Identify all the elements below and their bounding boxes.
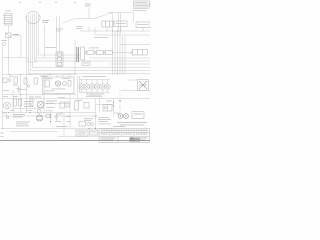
rectifier V10 bbox=[103, 105, 112, 112]
text x115 y113 bbox=[115, 112, 120, 115]
text row y37 bbox=[94, 36, 108, 39]
pot R2 bbox=[3, 78, 11, 83]
vertical x44 bbox=[44, 25, 46, 58]
transformer T1 bbox=[3, 14, 13, 26]
speaker jack circle bbox=[2, 113, 9, 119]
vertical left of lamps b bbox=[78, 76, 80, 93]
output text block bbox=[16, 122, 30, 127]
cap C4 bbox=[60, 102, 65, 108]
text x13 bottom bbox=[13, 114, 25, 117]
tube V8 bbox=[37, 110, 41, 114]
right hbus y44 bbox=[120, 44, 150, 46]
text block x46 bbox=[46, 101, 57, 104]
junction dots x113 bbox=[113, 101, 114, 102]
stub TB2 down bbox=[106, 27, 108, 31]
resistor R10 bbox=[75, 101, 79, 110]
resistor R11 bbox=[30, 99, 33, 106]
cable loop shield bbox=[26, 12, 40, 24]
label above T1 bbox=[5, 10, 11, 13]
vertical wire x75 bbox=[74, 40, 76, 75]
v wire x21 bbox=[20, 36, 22, 58]
lamp V6 bbox=[105, 80, 110, 93]
lamp row label below bbox=[86, 94, 104, 97]
right vertical bus r3 bbox=[119, 31, 121, 75]
extra text marks bottom-left 1 bbox=[10, 109, 15, 112]
small comp x47 bbox=[46, 114, 50, 118]
label cluster b bbox=[20, 88, 26, 91]
tube V7 bbox=[37, 101, 44, 108]
output transformer winding box bbox=[81, 47, 85, 60]
dropper resistor segment 4 bbox=[130, 50, 147, 56]
wire from node down bbox=[88, 8, 90, 19]
label near V7 bbox=[35, 96, 41, 99]
junction dots row y112 bbox=[8, 112, 9, 113]
junction dot on dashed line bbox=[119, 100, 120, 101]
partial wire y131 bbox=[10, 131, 58, 133]
terminal box TB2 bbox=[102, 21, 113, 27]
staircase wire bbox=[28, 58, 36, 63]
left h wire y128 bbox=[4, 128, 113, 130]
right hbus y64 bbox=[110, 63, 150, 65]
power transformer box right bbox=[138, 80, 149, 91]
wire bundle b4 bbox=[33, 14, 115, 68]
junction dot j4 bbox=[95, 128, 96, 129]
left h wire y74 bbox=[3, 74, 77, 76]
wire stub x88 bbox=[88, 27, 90, 31]
vertical x118 bbox=[118, 13, 120, 33]
preamp enclosure box bbox=[43, 77, 75, 94]
under-lamp bus bbox=[79, 92, 110, 94]
tube V12 bbox=[124, 114, 129, 119]
lamp feeder wire bbox=[79, 79, 110, 81]
lamp row label above bbox=[82, 75, 106, 78]
label box under winding bbox=[82, 61, 90, 65]
left h wire y57 bbox=[3, 57, 27, 59]
wire stub x93 bbox=[94, 27, 96, 35]
wire bundle b5 bbox=[35, 14, 81, 62]
dropper resistor segment 1 bbox=[85, 51, 94, 55]
lamp V3 bbox=[89, 80, 94, 93]
lamp V5 bbox=[100, 80, 105, 93]
arrow wire right of S1 bbox=[11, 35, 21, 37]
left h wire y112 bbox=[3, 112, 96, 114]
wire bundle b6 bbox=[37, 14, 81, 58]
label cluster c bbox=[3, 89, 9, 92]
node label top-center bbox=[85, 4, 91, 7]
resistor R4 bbox=[24, 78, 30, 87]
right hbus y70 bbox=[114, 67, 150, 69]
stamp box left bbox=[76, 130, 88, 136]
corner marks bottom left bbox=[1, 127, 4, 130]
wire pair down v1 bbox=[56, 16, 58, 52]
title block bbox=[99, 129, 150, 143]
dropper resistor segment 2 bbox=[94, 51, 103, 55]
dotted column x50.5 bbox=[50, 113, 51, 127]
wire pair down v2 bbox=[59, 16, 61, 52]
junction dot j1 bbox=[29, 112, 30, 113]
small marks y118 x54-60 bbox=[55, 115, 58, 122]
stamp box right bbox=[90, 130, 98, 135]
box/text x114-127 bbox=[114, 21, 127, 27]
wire J1 down bbox=[8, 38, 10, 75]
vertical x13 bbox=[12, 90, 14, 113]
h wire y104 right bbox=[96, 104, 114, 106]
extra text marks bottom-left 4 bbox=[55, 120, 61, 123]
extra text marks bottom-left 2 bbox=[26, 109, 32, 112]
bus wire right y36 bbox=[95, 34, 150, 36]
preamp box top stubs bbox=[57, 75, 70, 78]
label cluster e bbox=[13, 95, 18, 98]
stub box down bbox=[120, 27, 122, 32]
label above y98 bbox=[86, 95, 102, 98]
wire bundle b1 bbox=[26, 16, 28, 113]
text x56 y126 bbox=[56, 125, 68, 128]
junction dot j3 bbox=[88, 128, 89, 129]
resistor R3 bbox=[13, 77, 18, 85]
junction dot bus a bbox=[112, 30, 113, 31]
left v wire x20 bbox=[20, 75, 22, 113]
label R11 bbox=[29, 96, 34, 99]
lamp V4 bbox=[94, 80, 99, 93]
left h wire y116 bbox=[3, 115, 97, 117]
wire bundle b2 bbox=[29, 15, 151, 74]
text x56 y29 bbox=[56, 29, 63, 32]
box B7 bbox=[79, 122, 86, 127]
partial wire y136 bbox=[58, 136, 98, 138]
wire into K1 bbox=[133, 13, 135, 22]
zone tick labels top bbox=[19, 1, 76, 4]
wire under transformer bbox=[121, 90, 150, 92]
right vertical bus r4 bbox=[122, 36, 124, 75]
left v wire x44 bbox=[43, 75, 45, 113]
junction dot bus b bbox=[117, 30, 118, 31]
right vertical bus r2 bbox=[117, 31, 119, 75]
lamp V1 bbox=[79, 80, 84, 93]
right vertical bus r1 bbox=[114, 31, 116, 75]
dropper resistor segment 3 bbox=[103, 51, 112, 55]
left h wire y108 bbox=[12, 108, 44, 110]
label cluster a bbox=[9, 75, 13, 78]
diagonal wire up-right bbox=[94, 13, 113, 19]
vertical left of lamps a bbox=[76, 76, 78, 99]
wire y12 right bbox=[108, 12, 134, 14]
extra text marks bottom-left 5 bbox=[66, 120, 71, 123]
bottom border line bbox=[0, 140, 150, 142]
cap C8 bbox=[17, 86, 21, 93]
label above preamp box bbox=[40, 75, 48, 78]
lamp V2 bbox=[84, 80, 89, 93]
text x98 y117 bbox=[98, 117, 111, 124]
resistor R6 bbox=[19, 99, 22, 106]
label block x76 bbox=[76, 26, 83, 29]
label block left-center bbox=[42, 20, 49, 23]
margin mark bottom left bbox=[1, 132, 4, 135]
right hbus y61 bbox=[90, 60, 150, 62]
tube V11 bbox=[118, 114, 123, 119]
small text x76 y100 bbox=[77, 99, 83, 102]
wire into transformer bbox=[128, 79, 138, 81]
small text x106 y99 bbox=[106, 100, 112, 103]
junction dot j2 bbox=[49, 74, 50, 75]
label above dropper bbox=[89, 47, 99, 50]
junction dots row y94 bbox=[20, 94, 21, 95]
fuse/switch S1 bbox=[6, 33, 12, 38]
junction dot y116 bbox=[95, 115, 96, 116]
left h wire y94 bbox=[3, 94, 77, 96]
label cluster d bbox=[3, 95, 8, 98]
tube V13 bbox=[37, 115, 43, 121]
left v wire x70 bbox=[69, 95, 71, 129]
marks x56-70 bbox=[56, 113, 71, 137]
wire bundle b3 bbox=[31, 14, 151, 71]
wire T1 to S1 bbox=[8, 25, 10, 33]
shielded stage box bbox=[56, 52, 63, 67]
vertical x99 bbox=[99, 99, 101, 113]
left h wire y103 bbox=[44, 103, 70, 105]
label x46 y108 bbox=[46, 106, 54, 109]
right vertical bus r0 bbox=[112, 14, 114, 76]
switch diagonal w1 bbox=[62, 19, 76, 24]
right hbus y58 bbox=[90, 57, 150, 59]
bus wire top bbox=[76, 18, 94, 20]
stub K1 down bbox=[142, 28, 144, 32]
title block header text bbox=[113, 125, 125, 128]
extra text marks mid 6 bbox=[58, 96, 65, 99]
resistor R5 bbox=[14, 99, 17, 106]
vertical wire x95 bbox=[95, 99, 97, 129]
text row bottom right bbox=[117, 122, 147, 125]
tube V9 left bbox=[4, 102, 11, 109]
vertical wire x113 bbox=[113, 99, 115, 117]
bus wire y98 right bbox=[3, 98, 151, 100]
label near x63 bbox=[45, 46, 56, 49]
vertical x120 bbox=[120, 13, 122, 34]
small comp x66 bbox=[66, 102, 69, 107]
capacitor C2 bbox=[34, 78, 38, 84]
extra text marks bottom-left 3 bbox=[46, 110, 53, 113]
dashed chassis line bbox=[119, 91, 121, 117]
bus wire right y32 bbox=[80, 30, 150, 32]
input jack J1 bbox=[2, 40, 7, 45]
relay K1 box bbox=[136, 22, 150, 28]
label S1 bbox=[13, 34, 19, 35]
text x84 y118 bbox=[84, 118, 93, 121]
right hbus y52 bbox=[113, 52, 131, 54]
notes text top right bbox=[133, 1, 150, 11]
right vertical bus r5 bbox=[124, 36, 126, 75]
socket circles bbox=[87, 122, 93, 125]
cap C6 bbox=[84, 103, 89, 109]
output transformer core bbox=[77, 47, 79, 62]
left v wire x2 bbox=[2, 46, 4, 129]
wire bundle b7 bbox=[39, 15, 81, 55]
box B6 right bottom bbox=[132, 112, 144, 119]
text mid-left bottom bbox=[24, 101, 33, 107]
